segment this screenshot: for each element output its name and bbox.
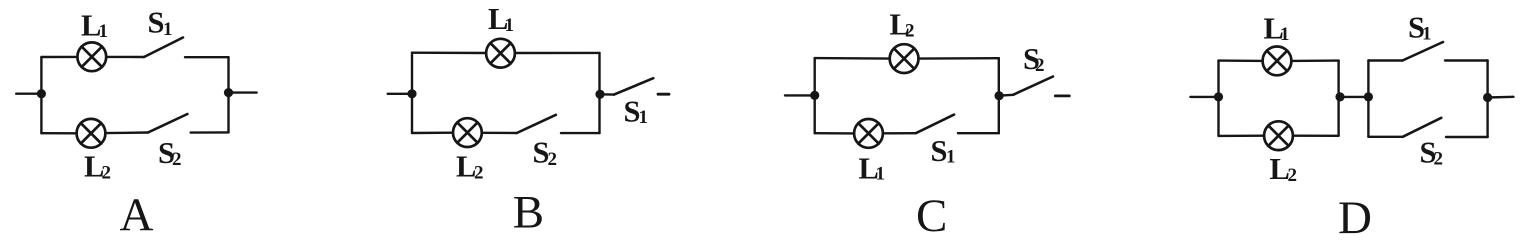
node: D middle junction left	[1335, 92, 1344, 101]
wire: B left vertical	[411, 53, 413, 133]
switch S2 (open blade)	[148, 114, 187, 133]
switch S1 (open blade)	[916, 115, 954, 134]
lamp L1	[854, 119, 883, 148]
wire: D left lead	[1190, 96, 1218, 98]
label S2	[1420, 136, 1444, 170]
switch S2 (open blade)	[1403, 118, 1442, 137]
label L1	[488, 2, 514, 36]
wire: C bottom branch, corner to lamp L1	[815, 132, 854, 135]
svg-text:C: C	[916, 190, 947, 235]
wire: A lamp L1 to switch S1 pivot	[106, 56, 144, 58]
svg-text:S: S	[931, 134, 948, 168]
wire: C left lead	[785, 94, 815, 96]
svg-text:1: 1	[99, 21, 109, 42]
svg-text:2: 2	[1035, 55, 1045, 76]
svg-text:1: 1	[639, 107, 649, 128]
node: C left junction	[810, 91, 819, 100]
wire: C lamp L1 to switch S1 pivot	[883, 132, 916, 135]
wire: A S2 fixed contact to right corner	[191, 131, 229, 134]
label S2	[158, 136, 182, 170]
node: D left junction	[1214, 92, 1223, 101]
wire: C stub from node to switch S2	[999, 94, 1013, 97]
label S1	[148, 6, 173, 41]
wire: C left vertical	[814, 58, 816, 133]
label L2	[84, 150, 111, 184]
label S2	[1023, 42, 1045, 76]
wire: A bottom branch, corner to lamp L2	[41, 132, 76, 135]
wire: B stub from node to switch S1	[600, 93, 614, 96]
node: B right junction	[595, 90, 604, 99]
lamp L1	[486, 39, 515, 68]
wire: B left lead	[388, 93, 412, 95]
wire: D S1 fixed contact to right corner	[1445, 59, 1488, 61]
svg-text:2: 2	[1434, 149, 1444, 170]
node: D middle junction right	[1364, 92, 1373, 101]
switch S1 (open blade)	[144, 38, 183, 58]
node: D right junction	[1483, 93, 1492, 102]
wire: B bottom branch, corner to lamp L2	[412, 131, 453, 134]
node: B left junction	[407, 89, 416, 98]
svg-text:2: 2	[102, 163, 112, 184]
wire: B S2 fixed contact to right corner	[561, 132, 600, 134]
wire: D top wire to switch S1 pivot	[1368, 59, 1402, 61]
label L2	[1270, 152, 1298, 186]
wire: A right lead	[229, 91, 257, 93]
label S1	[624, 95, 649, 129]
wire: D right lead	[1488, 96, 1514, 99]
node: A right junction	[224, 88, 233, 97]
wire: A top branch, corner to lamp L1	[41, 56, 77, 58]
svg-text:2: 2	[548, 149, 558, 170]
wire: A left vertical	[40, 57, 42, 133]
lamp L1	[77, 42, 106, 71]
wire: D S2 fixed contact to right corner	[1446, 136, 1488, 138]
lamp L2	[77, 119, 106, 148]
svg-text:1: 1	[1280, 24, 1290, 45]
wire: C lamp L2 to right corner	[919, 57, 999, 60]
switch S1 (open blade)	[1403, 42, 1444, 61]
wire: D bottom branch, corner to lamp L2	[1219, 134, 1265, 137]
label L1	[1264, 12, 1290, 46]
wire: A lamp L2 to switch S2 pivot	[105, 131, 148, 134]
svg-text:1: 1	[163, 19, 173, 40]
svg-text:D: D	[1338, 192, 1372, 235]
label L1	[859, 152, 886, 186]
node: A left junction	[37, 89, 46, 98]
lamp L2	[453, 118, 482, 147]
svg-text:1: 1	[946, 147, 956, 168]
svg-text:1: 1	[876, 164, 886, 185]
svg-text:1: 1	[505, 15, 515, 36]
wire: D switch-section left vertical	[1367, 61, 1369, 137]
wire: B lamp L1 to right corner	[515, 52, 600, 54]
wire: B right vertical	[598, 53, 600, 133]
svg-text:A: A	[120, 189, 154, 235]
svg-text:2: 2	[1288, 165, 1298, 186]
wire: D lamp L2 to right corner	[1293, 134, 1339, 137]
label S1	[931, 134, 956, 168]
wire: D link between sections	[1340, 96, 1368, 98]
lamp L1	[1263, 47, 1292, 76]
svg-text:2: 2	[474, 163, 484, 184]
switch S2 (open blade)	[1013, 77, 1053, 95]
wire: D lamp-section right vertical	[1337, 61, 1339, 136]
label S1	[1408, 10, 1432, 44]
switch S2 (open blade)	[517, 115, 556, 133]
wire: D top branch, corner to lamp L1	[1219, 59, 1263, 62]
wire: A S1 fixed contact to right corner	[185, 56, 229, 58]
svg-text:1: 1	[1422, 24, 1432, 45]
wire: C right vertical	[998, 58, 1000, 133]
switch S1 (open blade)	[614, 78, 653, 94]
wire: D bottom wire to switch S2 pivot	[1368, 136, 1402, 138]
label L2	[456, 150, 484, 184]
wire: C top branch, corner to lamp L2	[815, 57, 890, 60]
svg-text:2: 2	[172, 149, 182, 170]
wire: D lamp L1 to right corner	[1291, 59, 1338, 62]
wire: B lamp L2 to switch S2 pivot	[482, 132, 517, 135]
wire: B S1 fixed contact dash	[658, 93, 669, 96]
label S2	[533, 136, 558, 171]
lamp L2	[890, 44, 919, 73]
svg-text:B: B	[513, 187, 544, 235]
wire: D switch-section right vertical	[1486, 61, 1488, 138]
wire: A right vertical	[227, 57, 229, 132]
wire: B top branch, corner to lamp L1	[412, 52, 486, 55]
node: C right junction	[995, 91, 1004, 100]
wire: D left vertical	[1217, 61, 1219, 136]
lamp L2	[1264, 121, 1293, 150]
svg-text:S: S	[148, 6, 165, 40]
label L1	[81, 9, 108, 43]
svg-text:2: 2	[905, 21, 915, 42]
wire: C S2 fixed contact dash	[1055, 95, 1069, 98]
wire: A left lead	[16, 92, 41, 94]
label L2	[890, 8, 915, 42]
wire: C S1 fixed contact to right corner	[958, 132, 999, 134]
